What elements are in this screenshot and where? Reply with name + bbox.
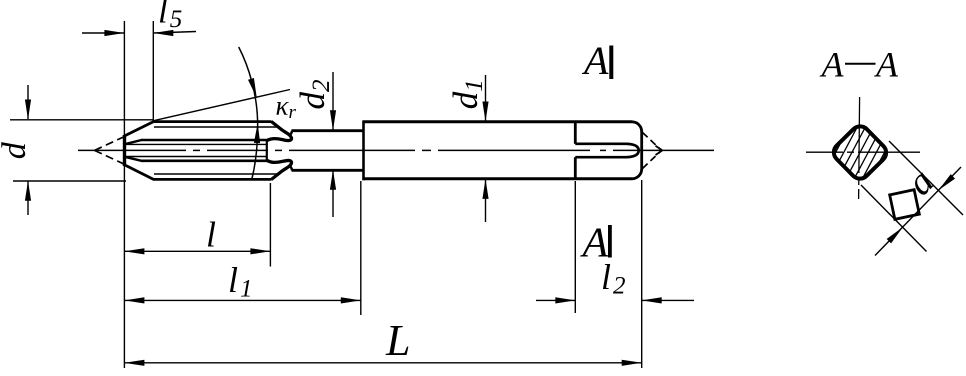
svg-text:A: A	[581, 38, 609, 83]
section vertical center line	[859, 97, 860, 199]
l2 dimension left arrow	[536, 299, 575, 301]
shank right rounded corner top	[632, 122, 642, 132]
d dimension line top	[27, 85, 29, 119]
neck top line	[292, 129, 364, 132]
square drive left edge lower	[574, 157, 577, 179]
l1 dimension line	[124, 299, 360, 301]
shank end face step	[362, 121, 365, 181]
l2 extension line right	[641, 180, 643, 368]
kappa angle arc	[239, 47, 258, 181]
l right extension line	[269, 183, 271, 267]
section horizontal center line	[806, 151, 920, 153]
center axis line	[78, 149, 186, 151]
a extension line upper	[889, 141, 963, 215]
a dimension line	[875, 167, 961, 256]
hatching lines	[813, 99, 906, 206]
flute chamfer top	[126, 140, 142, 144]
neck bottom line	[292, 169, 364, 172]
d1 dimension line top	[485, 75, 487, 121]
main left extension line	[123, 21, 125, 368]
flute chamfer bottom	[126, 157, 142, 161]
d dimension line bottom	[27, 181, 29, 215]
kappa angle slanted leg	[153, 90, 291, 121]
ear-to-neck connector top	[289, 131, 292, 137]
thread runout ear bottom	[267, 160, 292, 179]
chamfer edge bottom	[123, 164, 153, 179]
thread minor thin line bottom	[154, 173, 278, 175]
d extension line top (also angle leg)	[10, 119, 153, 121]
flute thin line lower	[125, 156, 267, 158]
center hole dashed cone bottom	[643, 150, 662, 168]
svg-text:L: L	[385, 316, 410, 365]
l5 dimension right arrow	[153, 32, 196, 34]
kappa arc arrow lower	[254, 123, 261, 143]
d2 dimension line top	[332, 72, 334, 130]
square drive left edge upper	[574, 121, 577, 144]
ear-to-neck connector bottom	[289, 165, 292, 171]
label square symbol	[890, 190, 920, 220]
l1 right extension line	[360, 181, 362, 315]
center hole dashed cone top	[643, 133, 662, 151]
thread crest bottom line	[153, 178, 272, 181]
shank bottom line	[363, 177, 633, 180]
tap point dashed cone bottom	[95, 150, 124, 163]
a extension line lower	[861, 185, 927, 252]
thread crest top line	[153, 120, 272, 123]
svg-text:A: A	[874, 45, 899, 85]
flute bottom line	[141, 160, 267, 163]
slot upper line	[575, 144, 638, 157]
l2 dimension right arrow	[642, 299, 694, 301]
flute top line	[141, 139, 267, 142]
thread minor thin line top	[154, 126, 278, 128]
l2 extension line left	[574, 181, 576, 313]
center hole chevron	[656, 146, 663, 155]
l dimension line	[124, 250, 270, 252]
d1 dimension line bottom	[485, 179, 487, 222]
shank top line	[363, 120, 633, 123]
l5 right extension line	[152, 21, 154, 121]
svg-text:l: l	[206, 215, 216, 255]
thread runout ear top	[267, 122, 292, 141]
svg-text:A: A	[820, 45, 845, 85]
d extension line bottom	[13, 180, 126, 182]
L dimension line	[124, 362, 641, 364]
svg-text:A: A	[580, 220, 609, 266]
shank right edge	[640, 131, 643, 170]
tap point dashed cone top	[95, 137, 124, 150]
l5 dimension left arrow	[82, 32, 124, 34]
flute end edge	[266, 139, 268, 162]
svg-text:d: d	[0, 141, 33, 159]
shank right rounded corner bottom	[632, 169, 642, 179]
chamfer edge top	[123, 122, 153, 137]
d2 dimension line bottom	[332, 170, 334, 217]
tap front end face	[123, 135, 126, 166]
flute thin line upper	[125, 143, 267, 145]
kappa arc arrow upper	[248, 78, 260, 99]
